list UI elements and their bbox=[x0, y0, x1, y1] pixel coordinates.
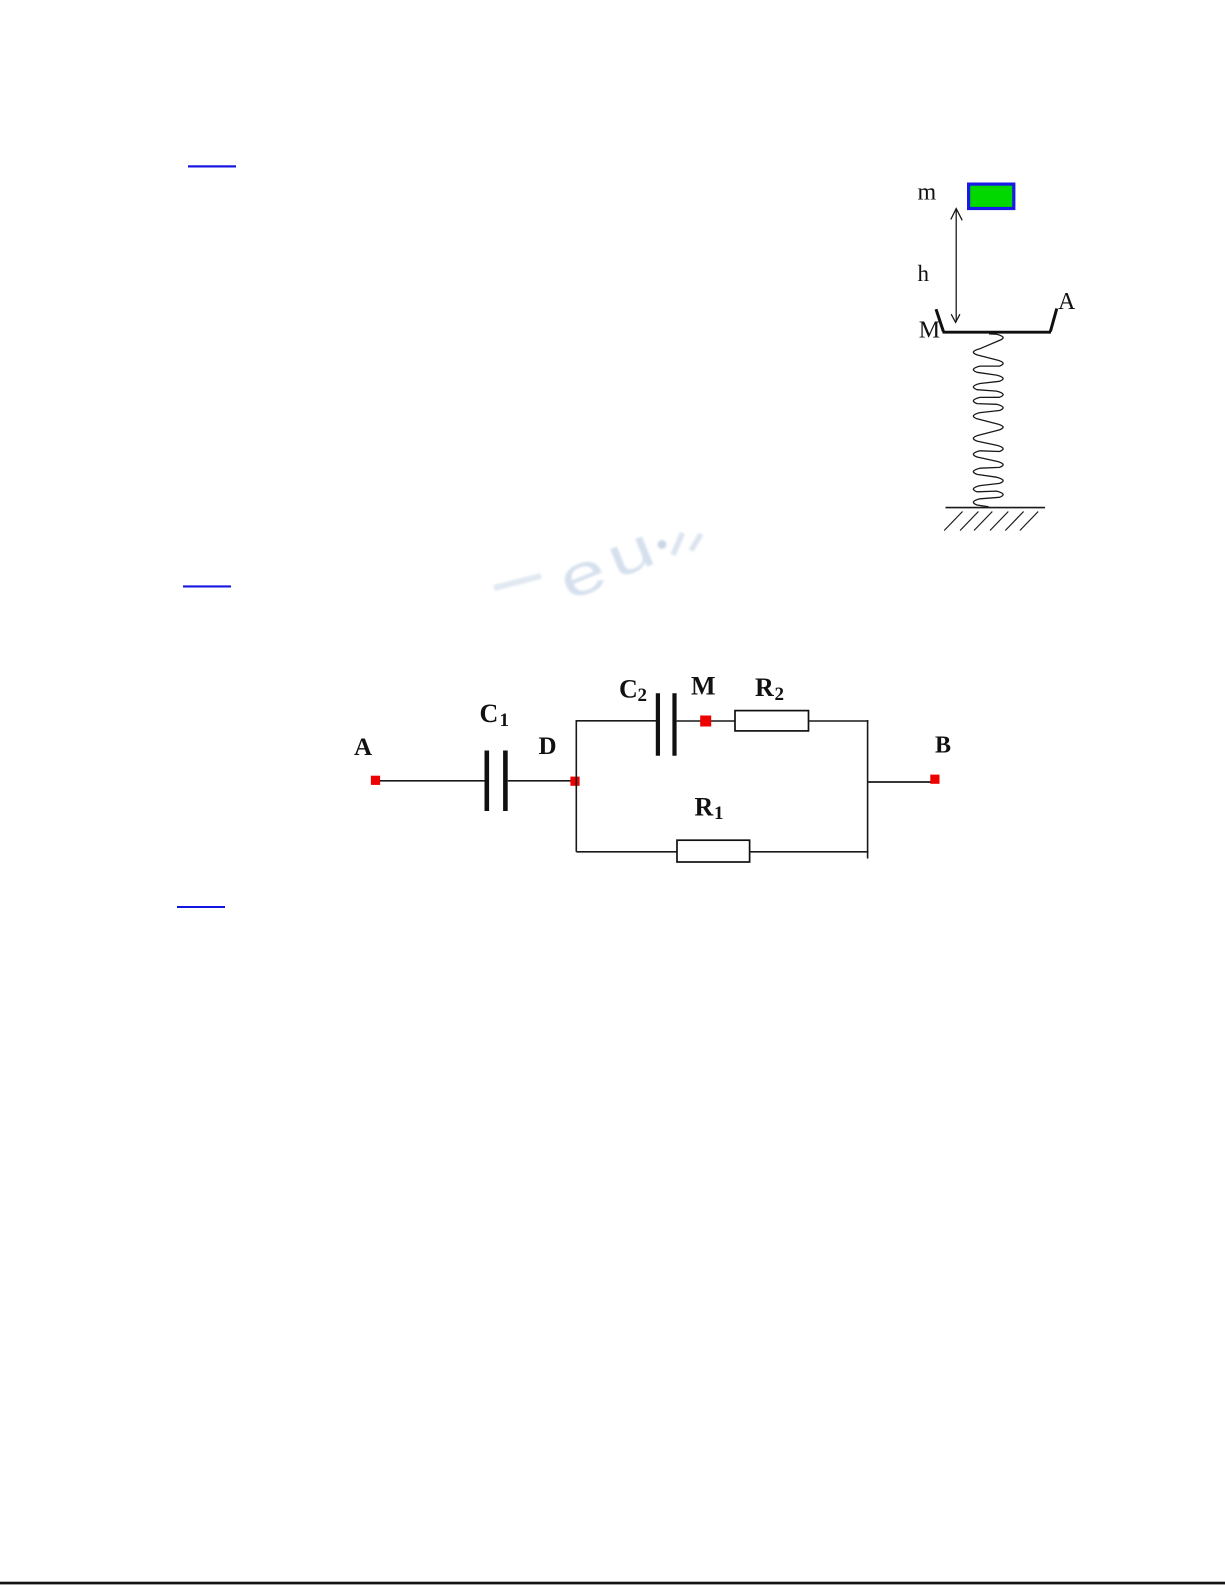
spring bbox=[973, 334, 1003, 507]
wire C2 to R2 bbox=[677, 720, 735, 722]
bottom rule bbox=[0, 1582, 1225, 1585]
svg-text:R: R bbox=[755, 673, 774, 702]
svg-text:C: C bbox=[480, 699, 499, 728]
plate (dish) bbox=[936, 309, 1057, 333]
node D terminal (red) bbox=[570, 777, 579, 786]
label A (plate) bbox=[1058, 289, 1076, 315]
loop right vertical wire bbox=[867, 720, 869, 859]
link underline 2 bbox=[183, 585, 231, 587]
svg-text:B: B bbox=[935, 733, 951, 759]
svg-text:1: 1 bbox=[714, 803, 724, 824]
svg-text:M: M bbox=[691, 672, 716, 701]
wire to B bbox=[868, 781, 931, 783]
label R2 bbox=[755, 673, 784, 705]
ground hatching bbox=[944, 512, 1038, 531]
wire R2 to right corner bbox=[809, 720, 869, 722]
link underline 1 bbox=[188, 165, 236, 167]
capacitor C2 bbox=[658, 693, 675, 755]
svg-text:A: A bbox=[1058, 289, 1076, 315]
node A terminal (red) bbox=[371, 776, 380, 785]
node A label bbox=[354, 734, 372, 761]
svg-text:1: 1 bbox=[500, 710, 510, 731]
capacitor C1 bbox=[487, 751, 506, 812]
node B label bbox=[935, 733, 951, 759]
label h bbox=[918, 261, 930, 286]
label C1 bbox=[480, 699, 510, 731]
ground line bbox=[946, 507, 1046, 509]
svg-text:A: A bbox=[354, 734, 372, 761]
svg-text:D: D bbox=[539, 733, 557, 760]
resistor R1 bbox=[677, 840, 750, 862]
height arrow h (double-headed) bbox=[951, 209, 962, 323]
bottom branch wire left bbox=[576, 851, 677, 853]
link underline 3 bbox=[177, 906, 225, 908]
node B terminal (red) bbox=[930, 775, 939, 784]
label m bbox=[918, 179, 937, 205]
top branch wire to C2 bbox=[576, 720, 657, 722]
svg-text:C: C bbox=[619, 675, 638, 704]
wire A to C1 bbox=[380, 780, 485, 782]
svg-text:2: 2 bbox=[638, 685, 648, 706]
svg-text:2: 2 bbox=[775, 684, 785, 705]
label M (plate) bbox=[919, 318, 940, 344]
resistor R2 bbox=[735, 711, 809, 731]
svg-text:h: h bbox=[918, 261, 930, 286]
label R1 bbox=[695, 793, 724, 824]
label C2 bbox=[619, 675, 647, 707]
wire C1 to D bbox=[508, 780, 571, 782]
svg-text:R: R bbox=[695, 793, 714, 822]
mass block (green, blue border) bbox=[969, 184, 1014, 208]
svg-text:M: M bbox=[919, 318, 940, 344]
loop left vertical wire bbox=[575, 720, 577, 852]
node M label bbox=[691, 672, 716, 701]
node M terminal (red) bbox=[700, 716, 711, 727]
node D label bbox=[539, 733, 557, 760]
bottom branch wire right bbox=[750, 851, 869, 853]
svg-text:m: m bbox=[918, 179, 937, 205]
